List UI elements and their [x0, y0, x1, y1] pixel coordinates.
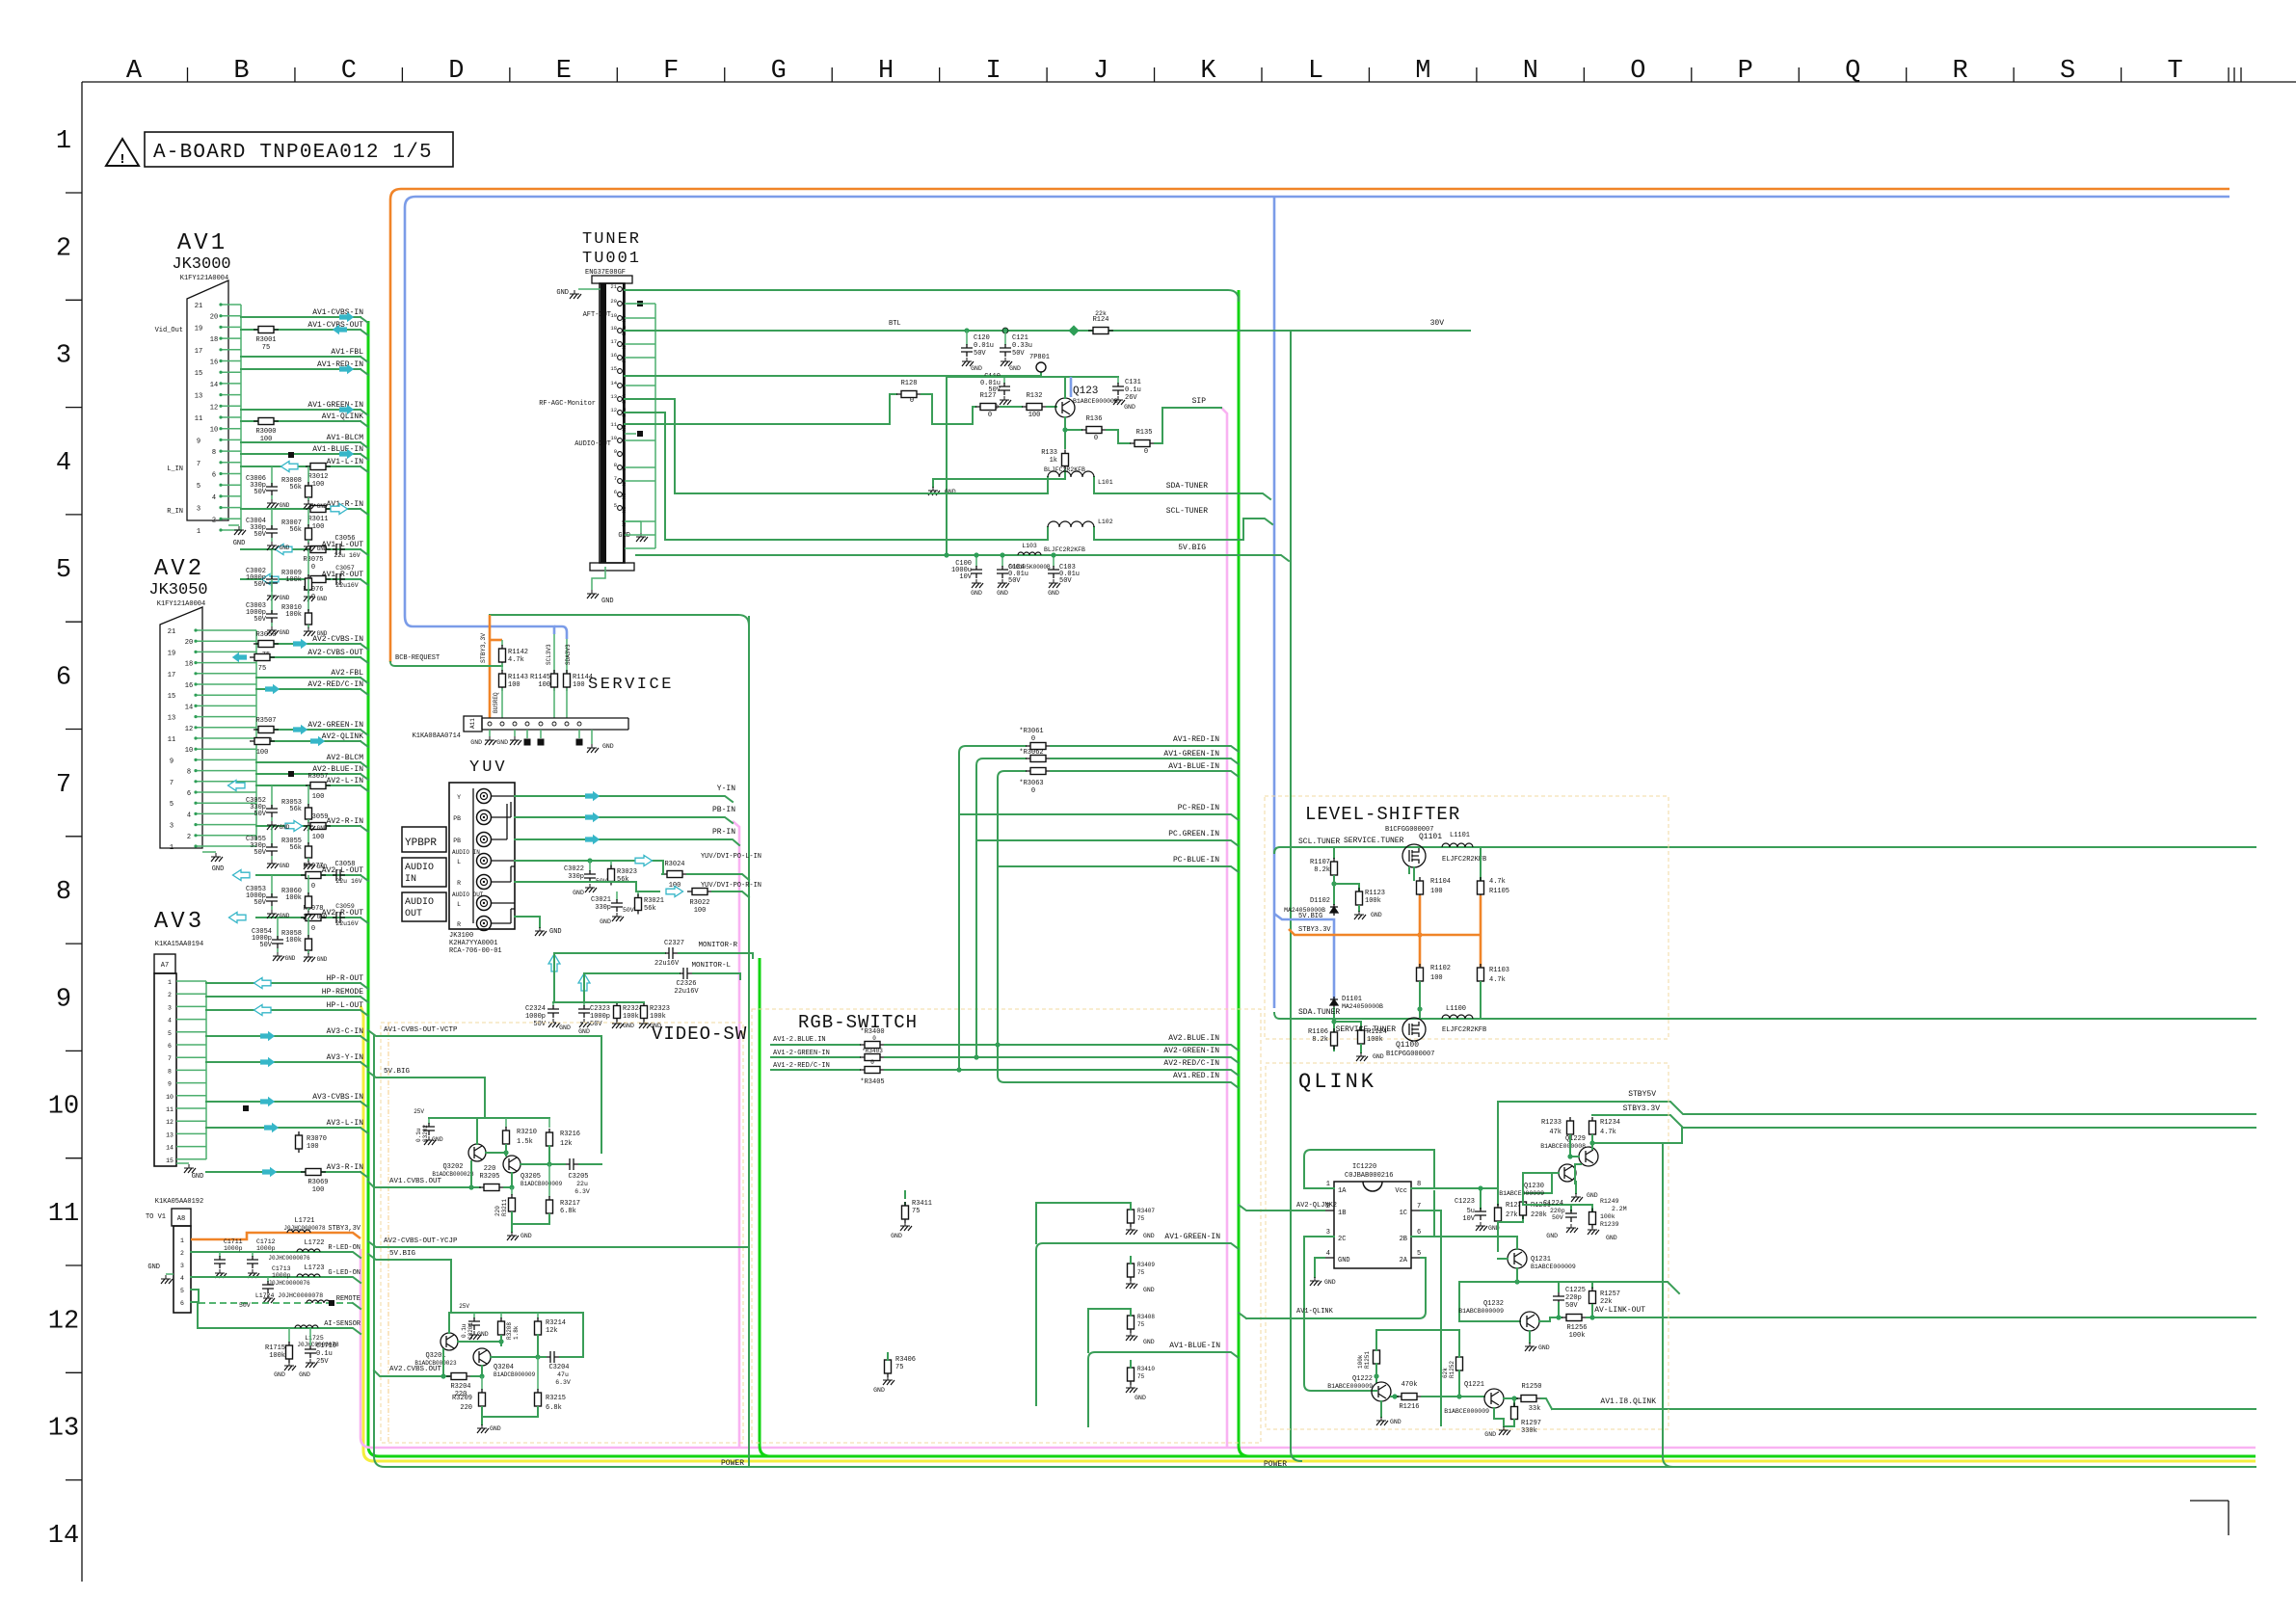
svg-text:3: 3	[180, 1263, 184, 1269]
resistor R1250	[1516, 1396, 1541, 1402]
ground connector A8	[166, 1273, 174, 1275]
resistor R3057	[306, 783, 331, 789]
svg-text:50V: 50V	[1552, 1214, 1563, 1221]
wire REMOTE dashed	[191, 1290, 199, 1303]
svg-text:R3070: R3070	[307, 1135, 327, 1143]
svg-text:GND: GND	[432, 1136, 443, 1143]
ground tuner mid	[625, 520, 641, 522]
svg-text:AV1-CVBS-IN: AV1-CVBS-IN	[312, 308, 363, 317]
svg-text:GND: GND	[1143, 1233, 1155, 1239]
svg-text:NC: NC	[621, 479, 627, 486]
svg-text:5: 5	[168, 1030, 172, 1037]
svg-text:12k: 12k	[560, 1140, 573, 1148]
svg-text:50V: 50V	[623, 907, 634, 914]
svg-text:220p: 220p	[1565, 1294, 1582, 1302]
yellow bus vertical	[360, 1006, 2256, 1461]
resistor R3062	[1026, 756, 1051, 762]
arrow AV3-Y-IN	[260, 1057, 275, 1067]
svg-text:Q: Q	[1845, 57, 1860, 86]
svg-text:PC.GREEN.IN: PC.GREEN.IN	[1168, 830, 1219, 838]
resistor R1123	[1356, 888, 1363, 909]
svg-text:GND: GND	[521, 1233, 532, 1239]
ground connector AV3	[176, 1162, 189, 1164]
resistor R1239	[1591, 1205, 1593, 1211]
svg-text:1: 1	[1326, 1181, 1330, 1188]
wire R133 to gnd	[933, 470, 1065, 487]
svg-text:NC: NC	[621, 342, 627, 349]
svg-text:AUDIO-OUT: AUDIO-OUT	[574, 440, 611, 448]
wire q1221 out	[1504, 1397, 1517, 1399]
wire vcc rail	[1411, 1187, 1498, 1189]
svg-text:GND: GND	[212, 865, 225, 873]
svg-text:100: 100	[260, 436, 273, 443]
svg-text:62k: 62k	[1442, 1368, 1449, 1378]
svg-text:R3021: R3021	[644, 897, 664, 905]
wire PB-IN	[515, 817, 733, 823]
capacitor C1223	[1480, 1188, 1482, 1209]
svg-text:GND: GND	[600, 918, 611, 925]
svg-text:22u16V: 22u16V	[674, 988, 699, 996]
wire STBY3_3V orange lvl	[1289, 929, 1481, 935]
svg-text:9: 9	[168, 1081, 172, 1088]
svg-text:GND: GND	[280, 595, 290, 601]
svg-text:MONITOR-L: MONITOR-L	[691, 962, 731, 970]
orange drop r1105	[1480, 895, 1482, 935]
svg-text:100k: 100k	[1367, 1036, 1383, 1044]
svg-text:AV2-L-IN: AV2-L-IN	[327, 777, 364, 785]
wire R-LED-ON	[191, 1252, 360, 1258]
svg-text:100: 100	[307, 1143, 319, 1151]
svg-text:13: 13	[166, 1131, 174, 1138]
svg-text:10: 10	[185, 747, 193, 755]
resistor R3077	[301, 872, 326, 879]
no-connect AV3 pin9	[243, 1105, 249, 1111]
svg-text:R3000: R3000	[255, 428, 276, 436]
arrow AV3_CVBS_IN	[260, 1097, 275, 1106]
inductor L1722	[297, 1249, 320, 1252]
svg-text:STBY5V: STBY5V	[1628, 1090, 1656, 1099]
wire PR-IN	[515, 839, 739, 845]
pink bus vertical YUV column	[733, 821, 739, 1448]
connector AV3 body	[154, 973, 176, 1166]
wire r1251 bottom	[1375, 1364, 1377, 1382]
transistor Q3205	[503, 1156, 521, 1173]
AV3 signal wires to bus	[206, 983, 368, 1178]
svg-text:K1FY121A0004: K1FY121A0004	[157, 600, 205, 608]
svg-text:4.7k: 4.7k	[1489, 976, 1506, 984]
wire orange to service pin1	[489, 615, 492, 718]
svg-text:YPBPR: YPBPR	[405, 838, 437, 849]
resistor R135	[1130, 440, 1155, 447]
transistor Q3201	[441, 1333, 458, 1350]
svg-text:*R3062: *R3062	[1019, 749, 1043, 757]
svg-text:Y: Y	[457, 794, 461, 801]
wire r3205 to q3205 base	[504, 1173, 512, 1187]
svg-text:GND: GND	[1606, 1235, 1617, 1241]
svg-text:SDA-TUNER: SDA-TUNER	[1166, 482, 1208, 491]
svg-text:R1102: R1102	[1430, 965, 1451, 972]
svg-text:P: P	[1738, 57, 1753, 86]
svg-text:56k: 56k	[289, 844, 302, 852]
wire q1230 base from r1123	[1523, 1173, 1559, 1202]
svg-text:AV1-CVBS-OUT-VCTP: AV1-CVBS-OUT-VCTP	[384, 1026, 458, 1034]
ground r1123	[1358, 906, 1360, 911]
svg-text:16: 16	[610, 352, 617, 359]
resistor R1251	[1374, 1346, 1380, 1368]
capacitor C131	[1117, 377, 1119, 384]
svg-text:K2HA7YYA0001: K2HA7YYA0001	[449, 940, 497, 947]
svg-text:R1234: R1234	[1600, 1119, 1620, 1127]
svg-text:AV1-GREEN-IN: AV1-GREEN-IN	[1163, 750, 1219, 758]
svg-text:14: 14	[610, 380, 617, 386]
svg-text:Vid_Out: Vid_Out	[155, 327, 183, 334]
svg-text:NC: NC	[621, 519, 627, 526]
wire vertical top rail to 5vbig	[946, 377, 948, 555]
svg-text:R1143: R1143	[508, 674, 528, 681]
svg-text:GND: GND	[280, 913, 290, 919]
wire q1229 collector	[1591, 1143, 1593, 1149]
mosfet Q1101	[1402, 844, 1426, 867]
svg-text:K1KA15AA0194: K1KA15AA0194	[155, 941, 203, 948]
svg-text:B1ADCB000023: B1ADCB000023	[432, 1171, 474, 1178]
svg-text:R3012: R3012	[307, 473, 328, 481]
svg-text:R136: R136	[1086, 415, 1103, 423]
ground yuv	[515, 917, 540, 927]
wire monitor L	[584, 972, 680, 974]
svg-text:L1725: L1725	[305, 1335, 324, 1342]
svg-text:R3407: R3407	[1137, 1208, 1155, 1214]
svg-text:D: D	[448, 57, 464, 86]
svg-text:220p: 220p	[1550, 1208, 1565, 1214]
svg-text:R3069: R3069	[307, 1179, 328, 1186]
wire r1250 out	[1541, 1398, 1552, 1409]
svg-text:1: 1	[170, 844, 174, 852]
junction r1251	[1374, 1373, 1378, 1378]
svg-text:6: 6	[168, 1043, 172, 1050]
svg-text:AUDIO: AUDIO	[405, 863, 434, 873]
svg-text:GND: GND	[578, 1028, 590, 1035]
svg-text:A8: A8	[177, 1215, 185, 1223]
svg-text:AV2.BLUE.IN: AV2.BLUE.IN	[1168, 1034, 1219, 1043]
svg-text:GND: GND	[470, 739, 482, 746]
wire SDA_TUNER long	[1274, 1013, 2256, 1019]
capacitor C3056	[333, 544, 345, 555]
wire PC-RED-IN	[959, 814, 1239, 820]
terminator service pins	[526, 730, 528, 738]
connector JK3050 body	[160, 607, 202, 848]
wire rgb vertical3	[997, 866, 999, 1045]
svg-text:GND: GND	[559, 1024, 571, 1031]
svg-text:20: 20	[210, 314, 218, 322]
svg-text:GND: GND	[280, 863, 290, 869]
wire G-LED-ON	[191, 1277, 360, 1283]
svg-text:GND: GND	[496, 739, 508, 746]
arrow AV2_R_IN	[285, 820, 303, 831]
svg-text:B1ABCE000009: B1ABCE000009	[1499, 1190, 1544, 1197]
svg-text:C3202: C3202	[422, 1125, 429, 1142]
svg-text:R1239: R1239	[1600, 1221, 1619, 1228]
capacitor C1225	[1558, 1282, 1560, 1291]
svg-text:R3408: R3408	[1137, 1314, 1155, 1320]
svg-text:R1145: R1145	[530, 674, 550, 681]
svg-text:C3204: C3204	[548, 1364, 569, 1371]
resistor R3075	[306, 546, 331, 553]
wire blue service drop	[553, 634, 555, 638]
svg-text:GND: GND	[1324, 1279, 1336, 1286]
svg-text:PB-IN: PB-IN	[712, 806, 735, 814]
arrow AV2_GREEN_IN	[293, 725, 307, 734]
svg-text:GND: GND	[971, 590, 982, 597]
svg-text:6.8k: 6.8k	[546, 1404, 562, 1412]
wire audio R in	[515, 882, 659, 891]
svg-text:TU001: TU001	[582, 250, 641, 268]
svg-text:MA24050000B: MA24050000B	[1342, 1003, 1383, 1010]
svg-text:C3059: C3059	[335, 903, 355, 910]
tuner pins	[610, 283, 622, 510]
svg-text:AV-LINK-OUT: AV-LINK-OUT	[1594, 1306, 1645, 1315]
capacitor C121	[1002, 328, 1008, 333]
svg-text:R3216: R3216	[560, 1131, 580, 1138]
transistor Q1232	[1520, 1312, 1539, 1331]
resistor R133	[1064, 430, 1066, 448]
resistor R3209	[481, 1376, 483, 1390]
wire AV1-BLUE-IN loop	[998, 771, 1026, 866]
svg-text:0: 0	[1094, 435, 1098, 442]
svg-text:50V: 50V	[254, 489, 266, 496]
ground connector AV1	[228, 524, 239, 526]
junction rgb3	[956, 1067, 961, 1072]
resistor R3214	[537, 1313, 539, 1318]
svg-text:0: 0	[1031, 787, 1035, 795]
svg-text:20: 20	[185, 639, 193, 647]
svg-text:100k: 100k	[285, 937, 302, 945]
wire AV1_CVBS_OUT	[368, 1182, 480, 1187]
svg-text:GND: GND	[601, 598, 614, 605]
connector JK3050 pins	[168, 628, 256, 852]
inductor L1100	[1442, 1015, 1473, 1019]
resistor R127	[975, 404, 1001, 411]
ground service1	[489, 730, 491, 736]
yuv jacks	[477, 789, 492, 931]
svg-text:GND: GND	[1048, 590, 1059, 597]
svg-text:GND: GND	[971, 365, 982, 372]
svg-text:NC: NC	[621, 506, 627, 513]
sheet corner mark bottom-right	[2190, 1501, 2229, 1535]
svg-text:AV2-R-OUT: AV2-R-OUT	[322, 909, 363, 918]
capacitor C2323	[583, 1002, 585, 1006]
svg-text:C1223: C1223	[1455, 1198, 1475, 1206]
svg-text:8.2k: 8.2k	[1312, 1036, 1328, 1044]
svg-text:R3411: R3411	[912, 1200, 932, 1208]
wire pin7 drop	[1421, 1211, 1441, 1425]
capacitor C3022	[589, 861, 591, 871]
svg-text:QLINK: QLINK	[1298, 1070, 1376, 1094]
svg-text:STBY3.3V: STBY3.3V	[1298, 926, 1331, 934]
wire q1229 emitter gnd	[1575, 1164, 1581, 1184]
svg-text:B1ABCB000009: B1ABCB000009	[1458, 1308, 1504, 1315]
svg-text:GND: GND	[1546, 1233, 1558, 1239]
ground r1124	[1360, 1045, 1362, 1052]
svg-text:Q1221: Q1221	[1464, 1381, 1484, 1389]
svg-text:L1723: L1723	[304, 1264, 324, 1272]
svg-text:R1103: R1103	[1489, 967, 1509, 974]
wire d1101 to r1106	[1333, 1008, 1335, 1051]
svg-text:GND: GND	[997, 590, 1008, 597]
svg-text:7: 7	[56, 771, 71, 800]
svg-text:R135: R135	[1136, 429, 1153, 437]
arrow monitor up1	[548, 954, 560, 971]
svg-text:220: 220	[460, 1404, 472, 1412]
svg-text:R3022: R3022	[689, 899, 709, 907]
wire q1231 collector top	[1411, 1237, 1517, 1249]
resistor R3050	[254, 641, 279, 648]
svg-text:POWER: POWER	[721, 1459, 744, 1468]
resistor R1124	[1358, 1026, 1365, 1048]
svg-text:B1ABCE00000B: B1ABCE00000B	[1073, 398, 1118, 405]
svg-text:6.8k: 6.8k	[560, 1208, 576, 1215]
arrow AV2_QLINK	[310, 736, 325, 746]
wire Y-IN	[515, 796, 733, 802]
resistor R1252	[1456, 1353, 1463, 1374]
svg-text:LEVEL-SHIFTER: LEVEL-SHIFTER	[1305, 804, 1460, 825]
ground ic	[1315, 1258, 1324, 1277]
qlink dashed box	[1266, 1063, 1669, 1429]
svg-text:2.2M: 2.2M	[1612, 1206, 1627, 1212]
svg-text:6.3V: 6.3V	[555, 1379, 571, 1386]
wire AV2_CVBS_OUT_VCTP	[368, 1241, 747, 1247]
svg-text:C3058: C3058	[334, 861, 355, 868]
svg-text:0.1u: 0.1u	[1125, 386, 1141, 394]
green wire vertical x388	[374, 1036, 2256, 1467]
svg-text:50V: 50V	[1008, 577, 1021, 585]
arrow yuv R	[666, 886, 683, 896]
wire PC-GREEN-IN	[976, 840, 1239, 846]
resistor AV2 series	[250, 654, 275, 661]
svg-text:1: 1	[180, 1237, 184, 1244]
svg-text:100: 100	[1028, 412, 1041, 419]
svg-text:AV1-BLUE-IN: AV1-BLUE-IN	[1168, 762, 1219, 771]
wire SDA tuner with L101	[625, 399, 1048, 493]
rgb mid chain R3408	[1128, 1312, 1135, 1333]
svg-text:GND: GND	[299, 1371, 310, 1378]
svg-text:AV1-FBL: AV1-FBL	[331, 348, 363, 357]
inductor L102	[1048, 521, 1094, 527]
svg-text:L101: L101	[1098, 479, 1113, 486]
svg-text:B1CPGG000007: B1CPGG000007	[1386, 1051, 1434, 1058]
svg-text:PB: PB	[453, 838, 461, 844]
resistor R3069	[301, 1169, 326, 1176]
arrow AV1_CVBS_OUT	[333, 325, 347, 334]
svg-text:JK3100: JK3100	[449, 932, 473, 940]
svg-text:M: M	[1415, 57, 1430, 86]
resistor R3021	[637, 891, 639, 896]
junction rgb1	[995, 1042, 1000, 1047]
svg-text:GND: GND	[317, 956, 328, 963]
svg-text:R3209: R3209	[452, 1395, 472, 1402]
svg-text:100: 100	[256, 749, 269, 757]
svg-text:AUDIO OUT: AUDIO OUT	[452, 891, 484, 898]
svg-text:BUSREQ: BUSREQ	[493, 692, 499, 713]
svg-text:IC1220: IC1220	[1352, 1163, 1376, 1171]
svg-text:AFT-OUT: AFT-OUT	[583, 311, 611, 319]
svg-text:0.1u: 0.1u	[415, 1128, 422, 1142]
svg-text:0.33u: 0.33u	[1012, 342, 1032, 350]
wire AV-LINK-OUT long	[1600, 1317, 2256, 1318]
svg-text:R3409: R3409	[1137, 1262, 1155, 1268]
svg-text:100k: 100k	[285, 576, 302, 584]
svg-text:2: 2	[212, 517, 216, 524]
svg-text:4.7k: 4.7k	[1600, 1129, 1616, 1136]
svg-text:SERVICE.TUNER: SERVICE.TUNER	[1344, 837, 1404, 845]
svg-text:8.2k: 8.2k	[1314, 866, 1330, 874]
svg-text:N: N	[1523, 57, 1538, 86]
junction 5vbig	[944, 552, 948, 557]
arrow AV3_L_IN	[264, 1123, 279, 1132]
svg-text:SCL3V3: SCL3V3	[546, 644, 552, 665]
junction audio L	[587, 858, 592, 863]
svg-text:B1ABCE000009: B1ABCE000009	[1444, 1408, 1489, 1415]
svg-text:6.3V: 6.3V	[574, 1188, 590, 1195]
resistor R1145	[553, 638, 555, 673]
wire q3205 emitter	[521, 1163, 549, 1165]
svg-text:AV1-L-IN: AV1-L-IN	[327, 458, 364, 466]
svg-text:2: 2	[180, 1250, 184, 1257]
resistor R1107	[1333, 847, 1335, 858]
svg-text:470k: 470k	[1402, 1381, 1418, 1389]
svg-text:GND: GND	[623, 1023, 634, 1029]
svg-text:8: 8	[1417, 1181, 1421, 1188]
svg-text:D1101: D1101	[1342, 996, 1362, 1003]
svg-text:0: 0	[311, 564, 315, 572]
svg-text:AV1-QLINK: AV1-QLINK	[322, 412, 363, 421]
resistor R1105	[1478, 877, 1484, 898]
svg-text:R124: R124	[1093, 316, 1109, 324]
resistor R3058	[307, 918, 309, 937]
svg-text:C1225: C1225	[1565, 1287, 1586, 1294]
svg-text:C3022: C3022	[564, 865, 584, 873]
junction r1252	[1456, 1394, 1461, 1398]
svg-text:15: 15	[168, 693, 175, 701]
green vertical video-sw right border	[760, 958, 770, 1456]
svg-text:2: 2	[56, 234, 71, 263]
wire 5V_BIG videosw2	[368, 1254, 583, 1313]
svg-text:SERVICE: SERVICE	[588, 676, 674, 694]
wire pin6 stub	[1421, 1191, 1434, 1237]
svg-text:GND: GND	[317, 825, 328, 832]
connector JK3000 body	[187, 280, 228, 520]
resistor R1234	[1589, 1117, 1596, 1138]
resistor R1257	[1591, 1282, 1593, 1288]
wire q1230 cluster rail	[1552, 1173, 1559, 1193]
svg-text:56k: 56k	[289, 484, 302, 492]
wire r3061 to bus	[1051, 746, 1239, 752]
no-connect AV2 pin12	[288, 771, 294, 777]
wire r3403 to bus	[885, 1057, 1239, 1063]
svg-text:L103: L103	[1022, 543, 1037, 549]
arrow AV3-R-IN	[262, 1167, 277, 1177]
svg-text:25V: 25V	[316, 1358, 329, 1366]
green bus vertical K column	[1239, 290, 1249, 1456]
svg-text:11: 11	[166, 1106, 174, 1113]
svg-text:SCL.TUNER: SCL.TUNER	[1298, 838, 1340, 846]
svg-text:8: 8	[212, 449, 216, 457]
capacitor C3058	[333, 869, 345, 881]
wire r3216 bottom	[548, 1146, 550, 1164]
wire 5V_BIG tuner	[636, 555, 1289, 561]
svg-text:100k: 100k	[1365, 897, 1381, 905]
svg-text:21: 21	[610, 283, 617, 290]
svg-text:O: O	[1630, 57, 1645, 86]
